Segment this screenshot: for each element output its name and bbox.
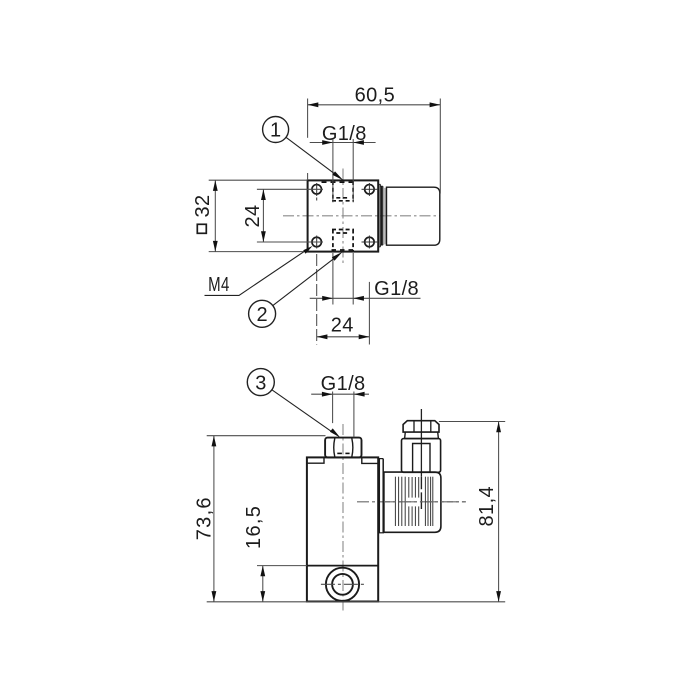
svg-text:G1/8: G1/8 — [321, 373, 366, 395]
svg-text:60,5: 60,5 — [355, 84, 396, 106]
callout circle 2 — [249, 300, 276, 327]
connector center pin line — [420, 409, 422, 477]
hex nut fitting (top of side view) — [325, 438, 361, 458]
callout circle 3 — [247, 369, 274, 396]
dimension 16,5 — [257, 565, 307, 567]
svg-text:24: 24 — [331, 315, 354, 337]
svg-text:M4: M4 — [208, 273, 229, 296]
coil winding hatch group A — [395, 477, 405, 526]
dimension 24 (left, vertical) — [257, 188, 323, 190]
svg-text:24: 24 — [242, 204, 264, 227]
coil mounting plate — [378, 459, 380, 533]
valve body (side view) — [307, 457, 378, 601]
dimension 24 (bottom, horizontal) — [316, 254, 318, 345]
svg-text:81,4: 81,4 — [476, 486, 498, 527]
svg-text:73,6: 73,6 — [194, 496, 216, 540]
cable gland hex nut — [403, 421, 439, 432]
ring 1 (mounting step) — [378, 184, 380, 247]
dimension 81,4 — [439, 421, 505, 423]
svg-text:16,5: 16,5 — [243, 505, 265, 549]
coil winding hatch group B — [409, 477, 419, 526]
centerline vertical (top view) — [342, 169, 344, 264]
leader 1 — [286, 137, 336, 175]
coil winding hatch group C — [425, 477, 432, 526]
screw hole M4 top-right — [365, 185, 375, 195]
svg-text:G1/8: G1/8 — [374, 278, 419, 300]
svg-text:3: 3 — [255, 372, 266, 394]
callout circle 1 — [263, 117, 289, 143]
flange separation line — [307, 565, 378, 567]
centerline horizontal redraw over gap — [384, 501, 466, 503]
top-right notch — [362, 457, 378, 463]
centerline horizontal through coil — [357, 501, 466, 503]
dimension 60,5 — [307, 99, 309, 138]
screw hole M4 top-left — [312, 185, 322, 195]
dimension 73,6 — [207, 435, 326, 437]
connector inner rect — [413, 444, 430, 473]
ring 3 thin line — [384, 188, 386, 245]
label G1/8 (bottom port) — [332, 253, 334, 305]
ring 2 — [381, 186, 383, 245]
port circle horizontal centerline — [321, 583, 367, 585]
leader 2 — [273, 257, 336, 305]
port G1/8 top (dashed, top view) — [332, 181, 334, 201]
port boss circle outer — [326, 568, 359, 601]
top-left notch — [307, 457, 324, 463]
centerline vertical (side view) — [342, 424, 344, 613]
gland washer — [405, 432, 439, 439]
connector body — [402, 439, 441, 473]
port G1/8 bottom (dashed, top view) — [332, 230, 334, 252]
screw hole M4 bottom-left — [312, 237, 322, 247]
leader 3 — [272, 390, 333, 433]
port circle inner — [332, 574, 353, 595]
centerline horizontal (top view) — [283, 215, 441, 217]
screw hole M4 bottom-right — [365, 237, 375, 247]
dimension square 32 — [209, 179, 308, 181]
valve body square (top view) — [308, 180, 379, 251]
svg-text:2: 2 — [257, 304, 268, 326]
coil (top view) — [387, 187, 440, 245]
svg-text:1: 1 — [270, 120, 281, 142]
coil block (side view) — [384, 472, 441, 532]
svg-text:32: 32 — [192, 194, 214, 217]
